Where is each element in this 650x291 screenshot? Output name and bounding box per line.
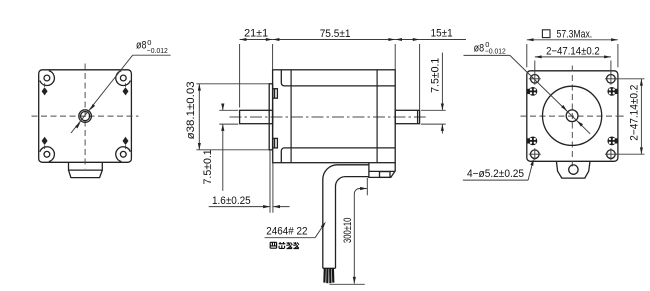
svg-text:−0.012: −0.012 [485,46,506,55]
right view: ear boss section bottom-right [607,137,618,146]
side view: cable inner edge [335,177,368,269]
side view: front end-bell boundary line [290,70,292,163]
svg-text:2−47.14±0.2: 2−47.14±0.2 [628,85,640,141]
right view: ear boss section bottom-left [527,137,538,146]
svg-text:7.5±0.1: 7.5±0.1 [202,149,214,184]
right view: mounting hole ø5.2 top-right [605,73,617,85]
svg-text:21±1: 21±1 [244,28,268,40]
side view: lead wires [324,268,333,283]
side view: extension line shaft tip [239,44,241,108]
left view: motor front face square body [39,70,132,163]
dimension 7.5±0.1 front shaft [202,104,238,191]
right view: cable exit hole [569,165,578,174]
dimension 1.6±0.25 boss thickness [209,151,290,213]
dimension 15±1 [395,27,466,41]
left view: ear section marker bottom-left [42,137,48,149]
dimension 300±10 cable length [330,178,368,284]
svg-text:ø8: ø8 [474,42,485,54]
dimension 21±1 [240,28,273,41]
right view: ear boss section top-left [527,87,538,96]
right view: extension lines hole spacing right [616,79,645,154]
side view: flange tab top [273,89,278,99]
left view: ear section marker top-right [123,83,129,95]
right view: mounting hole ø5.2 top-left [529,73,541,85]
right view: terminal housing [556,161,590,178]
left view: mounting hole top-right [120,75,126,81]
svg-text:75.5±1: 75.5±1 [320,28,351,40]
svg-text:ø38.1±0.03: ø38.1±0.03 [185,81,197,139]
svg-text:ø8: ø8 [136,40,147,52]
dimension 75.5±1 [273,28,396,41]
side view: extension line body rear [394,44,396,69]
right view: mounting hole ø5.2 bottom-left [529,148,541,160]
svg-text:2464# 22: 2464# 22 [266,225,307,237]
dimension 7.5±0.1 rear shaft [421,53,446,134]
left view: corner boss arc top-left [40,71,55,86]
label 四芯线缆 (four-core cable) [270,242,299,249]
dimension 2-47.14±0.2 vertical [628,79,643,154]
right view: ear boss section top-right [607,87,618,96]
left view: corner boss arc bottom-left [40,147,55,162]
svg-text:57.3Max.: 57.3Max. [557,28,593,40]
left view: corner boss arc bottom-right [116,147,131,162]
svg-text:300±10: 300±10 [342,218,354,243]
left view: corner boss arc top-right [116,71,131,86]
side view: flange corner chamfer line top [281,70,395,86]
left view: shaft circle ø8 [81,112,90,121]
dimension 2-47.14±0.2 horizontal [535,45,611,58]
side view: rear end-bell boundary line [376,70,378,163]
label 2464# 22 with leader [265,222,326,238]
right view: vertical centerline [571,66,573,170]
left view: mounting hole bottom-left [44,151,50,157]
svg-text:2−47.14±0.2: 2−47.14±0.2 [546,45,600,57]
left view: horizontal centerline [32,115,139,117]
dimension ø38.1±0.03 pilot boss [185,81,269,149]
right view: extension lines square width [527,44,618,67]
side view: cable outer edge [323,165,369,268]
left view: vertical centerline [84,64,86,169]
svg-text:15±1: 15±1 [431,27,453,39]
svg-text:4−ø5.2±0.25: 4−ø5.2±0.25 [467,168,524,180]
left view: ear section marker top-left [42,83,48,95]
left view: leader line for ø8 dimension [71,55,171,133]
left view: shaft boss circle [79,110,92,123]
side view: cable connector housing [369,163,395,178]
side view: rear shaft [395,110,419,123]
svg-text:−0.012: −0.012 [147,46,168,55]
right view: label ø8 0/-0.012 [474,40,506,55]
left view: mounting hole bottom-right [120,151,126,157]
right view: horizontal centerline [521,115,624,117]
side view: extension line rear shaft end [419,44,421,110]
side view: pilot boss 1.6 thick [269,84,272,150]
right view: extension lines hole spacing top [535,61,611,74]
side view: flange corner chamfer line bottom [281,148,395,163]
right view: rotor boss circle [543,86,602,145]
dimension □57.3Max. [527,28,618,41]
side view: horizontal centerline [230,116,426,118]
right view: mounting hole ø5.2 bottom-right [605,148,617,160]
right view: motor rear face square body [527,71,618,162]
svg-text:7.5±0.1: 7.5±0.1 [430,58,442,93]
side view: front shaft [240,110,273,123]
side view: motor body outline [273,70,396,163]
left view: label ø8 0/-0.012 [136,38,168,55]
side view: extension line flange face [272,44,274,69]
svg-text:1.6±0.25: 1.6±0.25 [212,195,251,207]
side view: flange tab bottom [273,138,278,148]
right view: leader line for ø8 dimension [464,55,591,133]
left view: mounting hole top-left [44,75,50,81]
side view: cable sheath end [323,267,336,269]
left view: terminal housing [69,162,103,177]
right view: rear shaft circle [566,110,578,122]
left view: ear section marker bottom-right [123,137,129,149]
label 4-ø5.2±0.25 with leader [463,159,534,181]
